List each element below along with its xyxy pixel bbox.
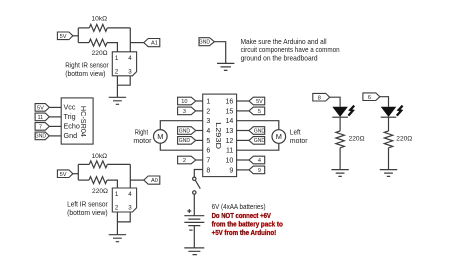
motor M2 left [272,130,286,144]
plus sign [187,209,191,213]
svg-text:+5V from the Arduino!: +5V from the Arduino! [212,228,277,237]
svg-text:GND: GND [179,128,191,134]
svg-text:A1: A1 [151,41,158,47]
wire R2 to pin1 [107,43,117,52]
node A1 tag [144,39,160,47]
wire pin2 down [116,76,118,98]
svg-text:1: 1 [115,55,119,62]
node 5V tag (left IR circuit) [57,170,73,178]
svg-text:motor: motor [133,136,152,145]
wire junction to A1 [130,42,144,44]
node GND tag (pin12) [249,137,265,145]
svg-text:GND: GND [199,40,211,46]
IR sensor U1 right (bottom view) [112,52,136,76]
node GND tag (HC-SR04) [35,132,50,140]
svg-text:5V: 5V [60,34,67,40]
svg-text:(bottom view): (bottom view) [65,69,105,78]
wire [49,106,61,108]
ground (LED D2) [380,170,397,177]
wire [237,110,249,112]
node GND tag (pin5) [178,137,196,145]
resistor R1 10k [89,24,107,31]
svg-text:Trig: Trig [64,112,76,121]
svg-text:3: 3 [183,109,186,115]
svg-text:Echo: Echo [64,121,80,130]
wire R1 to corner [107,27,130,29]
wire junction to A0 [130,179,144,181]
wire tag6 to LED [380,97,389,107]
svg-text:11: 11 [37,115,43,121]
wire battery to ground [193,226,195,248]
ultrasonic sensor U2 HC-SR04 [61,98,93,144]
svg-text:motor: motor [290,136,308,145]
wire corner down to pin4 [129,164,131,188]
svg-text:GND: GND [254,138,266,144]
wire switch to battery [193,194,195,216]
wire [49,125,61,127]
wire [237,159,249,161]
svg-text:Vcc: Vcc [64,103,76,112]
svg-text:8: 8 [318,95,321,101]
resistor R6 220 [89,177,107,184]
svg-text:10kΩ: 10kΩ [92,153,108,160]
svg-text:5V: 5V [60,172,67,178]
LED D2 [381,106,403,118]
wire [196,130,203,132]
ground (left IR) [109,235,126,242]
wire pin3 down-left [117,212,130,222]
svg-text:GND: GND [179,138,191,144]
svg-text:220Ω: 220Ω [396,136,412,143]
wire R6 to pin1 [107,180,117,188]
svg-text:220Ω: 220Ω [92,50,108,57]
svg-text:4: 4 [206,128,210,135]
resistor R2 220 [89,39,107,46]
wire pin3 to right motor [160,121,202,130]
node 7 tag [35,123,49,131]
svg-text:6: 6 [206,148,210,155]
node 10 tag [178,97,196,105]
wire LED to R3 [339,117,341,131]
svg-text:4: 4 [128,191,132,198]
IR sensor U4 left (bottom view) [112,188,136,212]
wire 5V tag to split [73,173,78,175]
wire R3 to ground [339,148,341,170]
svg-text:4: 4 [128,55,132,62]
switch S1 [193,177,201,194]
svg-text:7: 7 [39,125,42,131]
wire tag8 to LED [330,97,340,107]
svg-text:14: 14 [226,118,234,125]
node 6 tag [363,93,380,101]
wire [49,135,61,137]
node 5V tag (pin16) [249,97,265,105]
svg-text:7: 7 [206,157,210,164]
svg-text:5: 5 [258,109,261,115]
svg-text:5: 5 [206,138,210,145]
wire [196,110,203,112]
svg-text:11: 11 [226,148,233,155]
node 5V tag (right IR circuit) [57,32,73,40]
wire 5V tag to split [73,35,78,37]
svg-text:10: 10 [226,157,234,164]
node GND tag (top) [199,38,215,46]
wire corner down to pin4 [129,28,131,52]
wire R4 to ground [388,148,390,170]
node 5 tag [249,107,265,115]
wire GND tag down [214,42,225,64]
resistor R3 220 [336,131,344,148]
wire pin8 to switch [194,170,202,178]
svg-text:2: 2 [115,205,119,212]
wire pin11 to left motor [237,143,279,150]
light symbol [348,106,354,116]
wire to R1 [78,27,89,29]
node 9 tag [249,166,265,174]
svg-text:3: 3 [128,68,132,75]
wire split vertical [77,28,79,43]
svg-text:9: 9 [229,167,233,174]
wire split vertical [77,164,79,180]
svg-text:3: 3 [128,205,132,212]
wire [196,159,203,161]
wire [49,116,61,118]
minus sign [189,229,192,231]
svg-text:GND: GND [254,128,266,134]
svg-text:Gnd: Gnd [64,131,78,140]
wire pin14 to left motor [237,121,279,130]
svg-text:4: 4 [258,158,261,164]
node 5V tag (HC-SR04) [35,104,49,112]
wire R5 to corner [107,163,130,165]
svg-text:GND: GND [35,134,47,140]
wire [237,169,249,171]
ground (battery) [184,248,204,255]
svg-text:M: M [157,132,163,141]
svg-text:8: 8 [206,167,210,174]
wire pin3 down-left [117,76,130,85]
svg-text:10: 10 [181,99,187,105]
svg-text:5V: 5V [256,99,263,105]
svg-text:L293D: L293D [214,122,223,150]
LED D1 [332,106,354,118]
node 2 tag [178,156,196,164]
svg-text:(bottom view): (bottom view) [67,208,108,217]
wire pin6 to right motor [160,143,202,150]
wire to R6 [78,179,89,181]
svg-text:A0: A0 [151,178,158,184]
wire [237,130,249,132]
wire LED to R4 [388,117,390,131]
wire [237,100,249,102]
ground (right IR) [109,97,126,104]
svg-text:2: 2 [115,68,119,75]
svg-text:9: 9 [258,168,261,174]
svg-text:220Ω: 220Ω [92,188,108,195]
svg-text:M: M [276,132,282,141]
wire pin2 down [116,212,118,235]
node 8 tag [313,93,330,101]
ground (top) [217,63,234,70]
ground (LED D1) [331,170,348,177]
node GND tag (pin4) [178,127,196,135]
wire [237,139,249,141]
svg-text:13: 13 [226,128,234,135]
svg-text:6: 6 [368,95,371,101]
svg-text:ground on the breadboard: ground on the breadboard [241,54,318,63]
node GND tag (pin13) [249,127,265,135]
node A0 tag [144,176,160,184]
IC U3 L293D [203,94,237,177]
svg-text:15: 15 [226,108,234,115]
svg-text:1: 1 [115,191,119,198]
svg-text:HC-SR04: HC-SR04 [79,106,88,137]
motor M1 right [154,130,168,144]
wire to R5 [78,163,89,165]
svg-text:3: 3 [206,118,210,125]
svg-text:10kΩ: 10kΩ [92,15,108,22]
svg-text:1: 1 [206,98,210,105]
svg-text:2: 2 [183,158,186,164]
svg-text:5V: 5V [37,106,44,112]
node 4 tag [249,156,265,164]
wire to R2 [78,42,89,44]
node 11 tag [35,113,49,121]
resistor R5 10k [89,161,107,168]
svg-text:16: 16 [226,98,234,105]
svg-text:2: 2 [206,108,210,115]
wire [196,139,203,141]
svg-text:12: 12 [226,138,234,145]
battery BT1 6V [184,209,204,230]
battery plates [184,216,204,226]
resistor R4 220 [384,131,392,148]
light symbol [397,106,403,116]
svg-text:220Ω: 220Ω [349,136,365,143]
wire [196,100,203,102]
node 3 tag [178,107,196,115]
